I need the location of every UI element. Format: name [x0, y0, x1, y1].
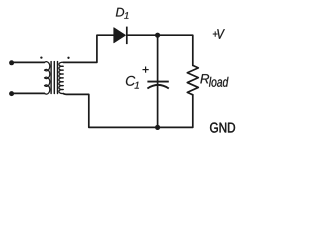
transformer core — [51, 62, 57, 94]
junction node bottom (C1/bottom rail) — [155, 125, 160, 130]
label Rload subscript — [209, 77, 229, 87]
diode D1 triangle — [114, 28, 126, 43]
wire: top rail right (diode cathode to corner) and right branch top vertical — [127, 35, 193, 65]
transformer secondary winding — [59, 62, 63, 93]
phase dot secondary — [67, 57, 69, 59]
label D1 letter — [116, 8, 124, 17]
capacitor C1 top plate — [147, 81, 168, 83]
node GND label — [210, 123, 235, 133]
label C1 subscript — [135, 82, 139, 89]
wire: secondary bottom stub, drop and bottom rail to right branch — [63, 94, 193, 128]
capacitor C1 polarity plus sign — [143, 67, 149, 73]
wire: bottom input lead — [12, 92, 45, 94]
resistor Rload zigzag — [187, 65, 198, 94]
node +V label — [213, 29, 225, 38]
wire: top input lead — [12, 61, 45, 63]
input terminal dot bottom — [9, 91, 14, 96]
wire: secondary top stub, riser and top rail to diode anode — [63, 35, 114, 62]
phase dot primary — [40, 56, 42, 58]
label D1 subscript — [124, 12, 128, 19]
wire: capacitor bottom lead — [157, 86, 159, 127]
junction node top (C1/top rail) — [155, 33, 160, 38]
label Rload letter — [200, 74, 209, 83]
label C1 letter — [126, 76, 135, 86]
wire: capacitor top lead — [157, 35, 159, 85]
diode D1 cathode bar — [126, 27, 128, 44]
input terminal dot top — [9, 60, 14, 65]
capacitor C1 bottom curved plate — [147, 85, 168, 89]
transformer primary winding — [45, 62, 50, 94]
